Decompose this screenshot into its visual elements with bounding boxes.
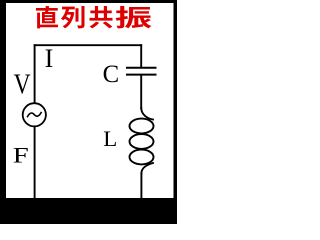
frame border top (0, 0, 177, 3)
AC source circle (23, 103, 46, 126)
wire: right branch to capacitor (140, 45, 142, 66)
wire: left vertical (34, 45, 36, 198)
inductor L exit curve (141, 163, 153, 174)
kanji 振 (116, 6, 152, 28)
AC source sine symbol (28, 113, 42, 117)
svg-text:L: L (103, 126, 117, 151)
svg-text:F: F (13, 142, 29, 167)
capacitor C bottom plate (127, 74, 156, 76)
frame border right (174, 0, 178, 224)
kanji 直 (36, 6, 58, 28)
wire: top horizontal (35, 44, 142, 46)
inductor L loop 2 (130, 134, 154, 149)
svg-text:V: V (14, 69, 31, 100)
inductor L loop 1 (130, 119, 154, 134)
svg-text:C: C (103, 59, 120, 88)
capacitor C top plate (127, 67, 156, 69)
inductor L loop 3 (130, 150, 154, 165)
circuit schematic: series resonance (直列共振) (0, 0, 177, 224)
wire: coil exit to bottom (140, 174, 142, 199)
kanji 共 (90, 6, 113, 28)
white background (0, 0, 177, 224)
svg-text:I: I (45, 44, 54, 73)
frame border bottom (0, 198, 177, 224)
inductor L coil entry curve (141, 108, 153, 120)
frame border left (0, 0, 6, 224)
title 直列共振 (red) (36, 6, 151, 28)
kanji 列 (61, 6, 85, 28)
wire: capacitor to coil entry (140, 76, 142, 108)
